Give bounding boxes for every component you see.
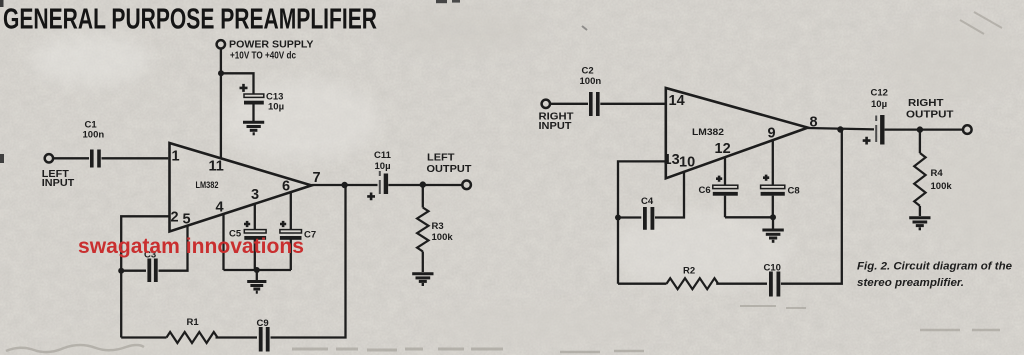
svg-text:14: 14 — [669, 93, 685, 109]
svg-text:LEFT: LEFT — [427, 152, 455, 163]
svg-text:INPUT: INPUT — [42, 178, 75, 189]
svg-text:LM382: LM382 — [692, 127, 724, 138]
svg-text:7: 7 — [313, 170, 321, 186]
svg-text:INPUT: INPUT — [539, 121, 572, 132]
svg-text:C4: C4 — [641, 196, 654, 207]
svg-text:GENERAL PURPOSE PREAMPLIFIER: GENERAL PURPOSE PREAMPLIFIER — [3, 3, 377, 35]
svg-text:1: 1 — [172, 149, 180, 165]
svg-text:100n: 100n — [580, 76, 602, 87]
svg-text:9: 9 — [768, 126, 776, 142]
svg-text:100n: 100n — [83, 130, 105, 141]
svg-text:C7: C7 — [304, 230, 316, 241]
svg-text:POWER SUPPLY: POWER SUPPLY — [229, 40, 314, 51]
svg-text:10µ: 10µ — [871, 99, 887, 110]
svg-text:11: 11 — [209, 159, 224, 175]
svg-text:10: 10 — [679, 155, 695, 171]
svg-text:2: 2 — [171, 210, 179, 226]
svg-text:R3: R3 — [432, 221, 444, 232]
svg-text:4: 4 — [216, 199, 224, 215]
svg-text:LM382: LM382 — [196, 180, 219, 191]
svg-text:stereo preamplifier.: stereo preamplifier. — [857, 277, 964, 289]
svg-text:C12: C12 — [871, 87, 888, 98]
svg-text:10µ: 10µ — [375, 161, 391, 172]
svg-text:12: 12 — [715, 141, 731, 157]
svg-text:100k: 100k — [432, 232, 454, 243]
svg-text:C8: C8 — [788, 186, 800, 197]
svg-text:Fig. 2. Circuit diagram of the: Fig. 2. Circuit diagram of the — [857, 261, 1012, 273]
svg-text:RIGHT: RIGHT — [908, 98, 944, 109]
svg-text:C11: C11 — [374, 150, 392, 161]
svg-text:+10V TO +40V dc: +10V TO +40V dc — [230, 50, 296, 61]
svg-text:100k: 100k — [931, 181, 953, 192]
svg-text:R4: R4 — [931, 168, 944, 179]
svg-text:5: 5 — [183, 212, 191, 228]
svg-text:OUTPUT: OUTPUT — [906, 109, 954, 120]
svg-text:C9: C9 — [257, 318, 269, 329]
svg-text:R1: R1 — [187, 317, 200, 328]
svg-text:C2: C2 — [582, 66, 594, 77]
svg-text:R2: R2 — [683, 266, 695, 277]
svg-text:swagatam innovations: swagatam innovations — [78, 234, 304, 258]
svg-text:3: 3 — [251, 187, 259, 203]
svg-text:OUTPUT: OUTPUT — [427, 164, 472, 175]
svg-text:8: 8 — [810, 115, 818, 131]
svg-text:13: 13 — [664, 152, 680, 168]
svg-text:C6: C6 — [699, 185, 711, 196]
svg-text:10µ: 10µ — [268, 102, 284, 113]
svg-text:C10: C10 — [764, 262, 781, 273]
svg-text:6: 6 — [282, 179, 290, 195]
